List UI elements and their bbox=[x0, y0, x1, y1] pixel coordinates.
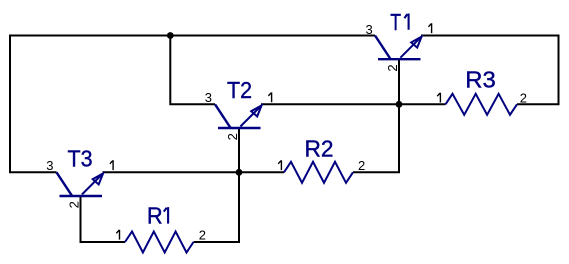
wire: T3 pin1 to R2 pin1 through lower junction bbox=[103, 171, 285, 173]
junction dot: middle rail bbox=[396, 101, 403, 108]
svg-text:R2: R2 bbox=[304, 136, 333, 162]
pin 1 of R1 bbox=[116, 230, 119, 240]
transistor T2 bbox=[215, 104, 262, 128]
svg-text:2: 2 bbox=[358, 158, 365, 173]
pin 1 of R3 bbox=[437, 93, 440, 103]
svg-text:3: 3 bbox=[365, 22, 372, 37]
svg-text:3: 3 bbox=[205, 90, 212, 105]
pin 1 of T2 bbox=[268, 92, 271, 102]
resistor R1 bbox=[125, 232, 194, 253]
svg-text:R3: R3 bbox=[465, 66, 496, 92]
wire: top rail from T1 pin3 left, down left side, to T3 pin3 bbox=[10, 36, 375, 173]
transistor T3 bbox=[57, 172, 104, 196]
label T1 bbox=[390, 9, 408, 35]
label R1 bbox=[147, 203, 168, 229]
svg-text:2: 2 bbox=[66, 201, 81, 208]
wire: T2 pin1 to R3 pin1 through middle junction bbox=[261, 103, 446, 105]
wire: T1 pin2 down to R2 pin2 bbox=[353, 59, 399, 172]
svg-text:2: 2 bbox=[520, 90, 527, 105]
wire: T2 pin2 down to R1 pin2 bbox=[194, 128, 240, 242]
transistor T1 bbox=[375, 36, 422, 60]
resistor R2 bbox=[284, 162, 353, 183]
junction dot: top rail bbox=[167, 32, 174, 39]
svg-text:R: R bbox=[147, 203, 163, 229]
wire: T3 pin2 down to R1 pin1 bbox=[81, 197, 126, 243]
resistor R3 bbox=[446, 94, 518, 115]
svg-text:T: T bbox=[390, 9, 401, 35]
pin 1 of T1 bbox=[428, 23, 431, 33]
wire: from top-rail junction down to T2 pin3 bbox=[170, 36, 215, 105]
pin 1 of R2 bbox=[278, 160, 281, 170]
junction dot: lower rail bbox=[236, 169, 243, 176]
svg-text:T3: T3 bbox=[68, 146, 93, 172]
svg-text:2: 2 bbox=[199, 228, 206, 243]
wire: T1 pin1 right, down right side, to R3 pin2 bbox=[421, 36, 559, 105]
pin 1 of T3 bbox=[110, 160, 113, 170]
svg-text:T2: T2 bbox=[227, 77, 252, 103]
svg-text:2: 2 bbox=[225, 133, 240, 140]
svg-text:2: 2 bbox=[385, 64, 400, 71]
svg-text:3: 3 bbox=[46, 158, 53, 173]
